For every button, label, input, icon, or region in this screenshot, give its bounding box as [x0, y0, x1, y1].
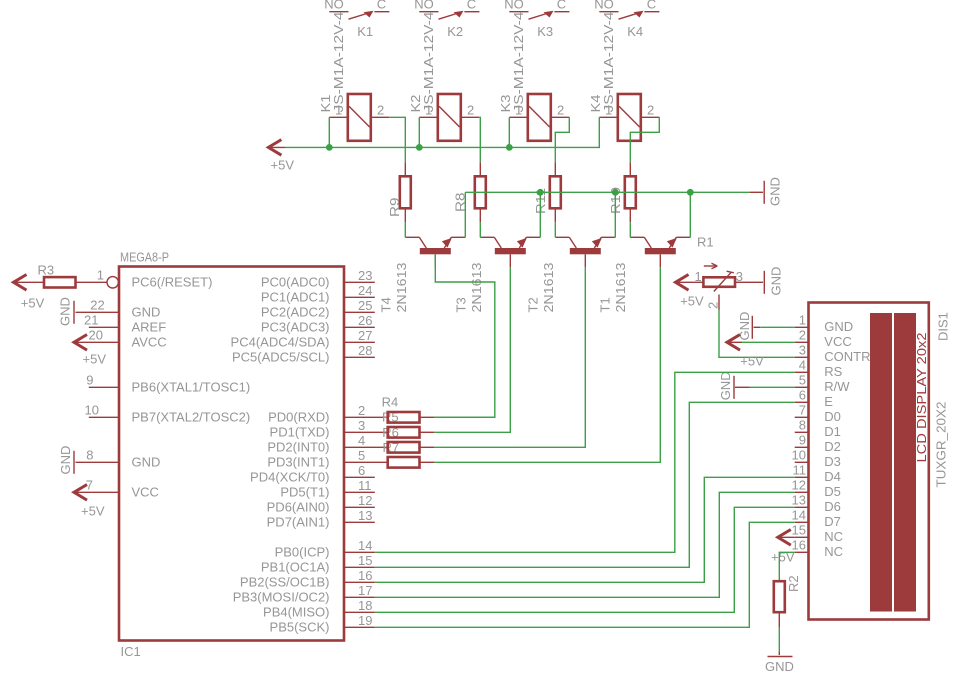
IC1 pin 1 (PC6(/RESET)) [97, 267, 213, 289]
svg-text:PD7(AIN1): PD7(AIN1) [267, 515, 330, 530]
svg-text:PC4(ADC4/SDA): PC4(ADC4/SDA) [231, 335, 330, 350]
ground symbol at LCD pin 5 [718, 371, 750, 400]
resistor R5 [388, 427, 435, 438]
LCD DIS1 pin 12 (D5) [792, 477, 841, 499]
ground symbol at trimmer R1 [750, 267, 784, 296]
svg-text:R4: R4 [382, 395, 399, 410]
svg-text:E: E [824, 394, 833, 409]
svg-text:R3: R3 [38, 262, 55, 277]
svg-text:R1: R1 [697, 235, 714, 250]
IC1 pin 3 (PD1(TXD)) [270, 418, 388, 440]
svg-text:PC2(ADC2): PC2(ADC2) [261, 305, 330, 320]
wire LCD pin2 to +5V [742, 341, 795, 343]
svg-text:GND: GND [132, 455, 161, 470]
svg-text:+5V: +5V [740, 353, 764, 368]
svg-text:2: 2 [647, 102, 654, 117]
svg-text:3: 3 [736, 269, 743, 284]
IC1 pin 19 (PB5(SCK)) [270, 613, 375, 635]
junction K1/+5V [326, 144, 333, 151]
svg-text:PD1(TXD): PD1(TXD) [270, 425, 330, 440]
svg-text:8: 8 [799, 417, 806, 432]
svg-text:6: 6 [358, 463, 365, 478]
wire T4 emitter to rail [464, 192, 466, 237]
svg-text:12: 12 [792, 477, 806, 492]
svg-text:GND: GND [132, 305, 161, 320]
wire R4 to T4 base [434, 416, 495, 418]
svg-text:PC0(ADC0): PC0(ADC0) [261, 275, 330, 290]
svg-text:D4: D4 [824, 469, 841, 484]
svg-text:PD4(XCK/T0): PD4(XCK/T0) [250, 470, 329, 485]
svg-text:PB0(ICP): PB0(ICP) [275, 545, 330, 560]
wire T3 emitter to rail [539, 192, 541, 237]
wire K2 pin1 drop [418, 117, 420, 147]
svg-text:PB1(OC1A): PB1(OC1A) [261, 560, 330, 575]
IC1 pin 9 (PB6(XTAL1/TOSC1)) [86, 372, 250, 394]
wire trimmer wiper to LCD CONTR [719, 310, 795, 357]
svg-text:GND: GND [765, 659, 794, 674]
svg-text:7: 7 [86, 477, 93, 492]
svg-text:AVCC: AVCC [132, 335, 167, 350]
svg-text:GND: GND [824, 319, 853, 334]
transistor T1 (2N1613 NPN) [630, 237, 690, 267]
resistor R3 [44, 277, 107, 287]
IC1 pin 8 (GND) [76, 447, 161, 469]
wire emitter rail to GND [465, 191, 750, 193]
IC1 pin 24 (PC1(ADC1)) [261, 283, 375, 305]
svg-text:GND: GND [718, 371, 733, 400]
wire T2 collector to resistor [554, 222, 556, 237]
svg-text:K4: K4 [627, 24, 643, 39]
IC1 pin 11 (PD5(T1)) [280, 478, 374, 500]
ground symbol at IC1 pin 8 [58, 446, 74, 475]
svg-text:JS-M1A-12V-4: JS-M1A-12V-4 [331, 12, 346, 113]
svg-text:PD2(INT0): PD2(INT0) [267, 440, 329, 455]
wire K1 pin2 to R9 [389, 117, 405, 162]
+5V power symbol (rail, left) [268, 140, 294, 173]
svg-text:26: 26 [358, 313, 372, 328]
wire LCD pin1 to GND [760, 326, 795, 328]
wire PB2 to LCD D4 [375, 477, 795, 582]
svg-text:JS-M1A-12V-4: JS-M1A-12V-4 [511, 12, 526, 113]
svg-text:PD3(INT1): PD3(INT1) [267, 455, 329, 470]
+5V power symbol at trimmer R1 [676, 275, 705, 309]
wire T3 collector to resistor [479, 222, 481, 237]
svg-text:15: 15 [358, 553, 372, 568]
relay K4 switch contacts (NO / C) [594, 0, 659, 39]
svg-text:LCD DISPLAY 20x2: LCD DISPLAY 20x2 [914, 333, 929, 463]
wire PB5 to LCD D7 [375, 522, 795, 627]
+5V power symbol at LCD pin 2 [727, 335, 764, 369]
svg-text:2N1613: 2N1613 [541, 263, 556, 313]
IC1 pin 25 (PC2(ADC2)) [261, 298, 375, 320]
svg-text:C: C [647, 0, 656, 12]
wire PB4 to LCD D6 [375, 507, 795, 612]
wire LCD pin16 to R2 [779, 552, 794, 581]
junction T1 emitter [687, 189, 694, 196]
svg-text:T4: T4 [378, 297, 393, 312]
svg-text:CONTR: CONTR [824, 349, 870, 364]
svg-text:12: 12 [358, 493, 372, 508]
IC1 pin 1 inversion circle [107, 277, 118, 288]
svg-text:TUXGR_20X2: TUXGR_20X2 [934, 402, 949, 488]
wire T1 collector to resistor [629, 222, 631, 237]
svg-text:T3: T3 [454, 297, 469, 312]
svg-text:D6: D6 [824, 499, 841, 514]
IC1 pin 6 (PD4(XCK/T0)) [250, 463, 375, 485]
svg-text:DIS1: DIS1 [936, 312, 951, 341]
svg-text:25: 25 [358, 298, 372, 313]
svg-text:2: 2 [358, 403, 365, 418]
junction K3/+5V [506, 144, 513, 151]
svg-text:R/W: R/W [824, 379, 850, 394]
svg-text:VCC: VCC [824, 334, 851, 349]
svg-text:PB2(SS/OC1B): PB2(SS/OC1B) [240, 575, 330, 590]
LCD DIS1 pin 13 (D6) [792, 492, 841, 514]
svg-text:3: 3 [799, 342, 806, 357]
resistor R6 [388, 442, 435, 453]
svg-text:9: 9 [799, 432, 806, 447]
IC1 pin 18 (PB4(MISO)) [263, 598, 375, 620]
LCD DIS1 pin 11 (D4) [793, 462, 841, 484]
svg-text:21: 21 [84, 312, 98, 327]
svg-text:13: 13 [358, 508, 372, 523]
LCD DIS1 pin 1 (GND) [795, 312, 853, 334]
svg-text:RS: RS [824, 364, 842, 379]
svg-text:T2: T2 [526, 297, 541, 312]
IC1 pin 5 (PD3(INT1)) [267, 448, 387, 470]
svg-text:+5V: +5V [81, 503, 105, 518]
relay K1 coil [329, 94, 389, 141]
relay K3 switch contacts (NO / C) [504, 0, 569, 39]
svg-text:2: 2 [799, 327, 806, 342]
junction K2/+5V [416, 144, 423, 151]
relay K4 coil [599, 94, 659, 141]
wire T2 emitter to rail [614, 192, 616, 237]
resistor R2 [774, 581, 785, 627]
svg-text:19: 19 [358, 613, 372, 628]
svg-text:1: 1 [97, 267, 104, 282]
wire T2 base to R6 [434, 267, 585, 447]
svg-text:4: 4 [358, 433, 365, 448]
svg-text:MEGA8-P: MEGA8-P [120, 250, 169, 265]
svg-text:2: 2 [467, 102, 474, 117]
ground symbol at IC1 pin 22 [58, 297, 75, 326]
svg-text:D5: D5 [824, 484, 841, 499]
svg-text:5: 5 [358, 448, 365, 463]
svg-text:R2: R2 [786, 575, 801, 592]
+5V power symbol at R3 [14, 275, 45, 311]
svg-text:13: 13 [792, 492, 806, 507]
LCD DIS1 pin 14 (D7) [792, 507, 841, 529]
svg-text:+5V: +5V [771, 549, 795, 564]
svg-text:2: 2 [557, 102, 564, 117]
IC1 pin 22 (GND) [76, 297, 161, 319]
svg-text:D0: D0 [824, 409, 841, 424]
LCD DIS1 pin 9 (D2) [795, 432, 841, 454]
wire K2 pin2 to R8 [479, 117, 480, 162]
resistor R10 [625, 162, 636, 222]
ground symbol at LCD pin 1 [737, 312, 760, 341]
relay K3 coil [509, 94, 569, 141]
ground symbol below R2 [765, 652, 794, 674]
LCD DIS1 pin 5 (R/W) [795, 372, 851, 394]
svg-text:JS-M1A-12V-4: JS-M1A-12V-4 [601, 12, 616, 113]
transistor T4 (2N1613 NPN) [405, 237, 465, 267]
relay K2 switch contacts (NO / C) [414, 0, 479, 39]
resistor R4 [388, 412, 435, 423]
junction T3 emitter [537, 189, 544, 196]
svg-text:14: 14 [792, 507, 806, 522]
resistor R8 [475, 162, 486, 222]
LCD DIS1 pin 6 (E) [795, 387, 834, 409]
svg-text:D1: D1 [824, 424, 841, 439]
svg-text:7: 7 [799, 402, 806, 417]
svg-text:VCC: VCC [132, 485, 159, 500]
wire LCD pin5 to GND [750, 386, 795, 388]
IC1 pin 16 (PB2(SS/OC1B)) [240, 568, 375, 590]
svg-text:PD0(RXD): PD0(RXD) [268, 410, 329, 425]
resistor R11 [550, 162, 561, 222]
svg-text:16: 16 [358, 568, 372, 583]
svg-text:24: 24 [358, 283, 372, 298]
svg-text:JS-M1A-12V-4: JS-M1A-12V-4 [421, 12, 436, 113]
svg-text:5: 5 [799, 372, 806, 387]
wire PB1 to LCD E [375, 402, 795, 567]
svg-text:28: 28 [358, 343, 372, 358]
svg-text:PD6(AIN0): PD6(AIN0) [267, 500, 330, 515]
LCD DIS1 pin 10 (D3) [792, 447, 841, 469]
wire T4 collector to resistor [404, 222, 406, 237]
svg-text:20: 20 [89, 327, 103, 342]
svg-text:15: 15 [792, 522, 806, 537]
svg-text:14: 14 [358, 538, 372, 553]
svg-text:PB6(XTAL1/TOSC1): PB6(XTAL1/TOSC1) [132, 380, 251, 395]
relay K2 coil [419, 94, 479, 141]
svg-text:2N1613: 2N1613 [469, 263, 484, 313]
svg-text:NC: NC [824, 529, 843, 544]
svg-text:11: 11 [358, 478, 372, 493]
wire PB3 to LCD D5 [375, 492, 795, 597]
svg-text:27: 27 [358, 328, 372, 343]
wire PB0 to LCD RS [375, 372, 795, 552]
svg-text:PC3(ADC3): PC3(ADC3) [261, 320, 330, 335]
trimmer potentiometer R1 [703, 263, 749, 310]
svg-text:GND: GND [768, 177, 783, 206]
svg-text:9: 9 [86, 372, 93, 387]
svg-text:GND: GND [58, 446, 73, 475]
svg-text:8: 8 [86, 447, 93, 462]
svg-text:2N1613: 2N1613 [394, 263, 409, 313]
IC1 pin 13 (PD7(AIN1)) [267, 508, 375, 530]
svg-text:6: 6 [799, 387, 806, 402]
svg-text:GND: GND [58, 297, 73, 326]
svg-text:+5V: +5V [83, 352, 107, 367]
LCD DIS1 pin 7 (D0) [795, 402, 841, 424]
svg-text:18: 18 [358, 598, 372, 613]
wire T4 base to R4 [434, 254, 495, 417]
transistor T3 (2N1613 NPN) [480, 237, 540, 267]
wire K3 pin2 to R11 [555, 117, 569, 162]
wire T1 emitter to rail [689, 192, 691, 237]
LCD DIS1 pin 8 (D1) [795, 417, 841, 439]
ground symbol (emitter rail) [750, 177, 783, 206]
svg-text:C: C [467, 0, 476, 12]
transistor T2 (2N1613 NPN) [555, 237, 615, 267]
svg-text:D7: D7 [824, 514, 841, 529]
LCD display DIS1 body (TUXGR_20X2) [809, 303, 929, 620]
IC1 pin 21 (AREF) [84, 312, 166, 334]
wire T1 base to R7 [434, 267, 660, 462]
svg-text:2N1613: 2N1613 [613, 263, 628, 313]
svg-text:K2: K2 [447, 24, 463, 39]
svg-text:17: 17 [358, 583, 372, 598]
svg-text:4: 4 [799, 357, 806, 372]
svg-text:NO: NO [594, 0, 614, 12]
svg-text:IC1: IC1 [121, 644, 141, 659]
svg-text:PC5(ADC5/SCL): PC5(ADC5/SCL) [232, 350, 330, 365]
wire +5V rail [285, 117, 599, 147]
svg-text:+5V: +5V [271, 157, 295, 172]
resistor R7 [388, 457, 435, 468]
svg-text:2: 2 [377, 102, 384, 117]
wire R2 to GND [778, 627, 780, 652]
IC1 pin 15 (PB1(OC1A)) [261, 553, 375, 575]
svg-text:10: 10 [85, 402, 99, 417]
svg-text:11: 11 [793, 462, 807, 477]
LCD DIS1 pin 3 (CONTR) [795, 342, 871, 364]
svg-text:D2: D2 [824, 439, 841, 454]
IC1 pin 12 (PD6(AIN0)) [267, 493, 375, 515]
IC1 pin 10 (PB7(XTAL2/TOSC2)) [85, 402, 251, 424]
svg-text:D3: D3 [824, 454, 841, 469]
IC1 pin 20 (AVCC) [74, 327, 167, 350]
IC1 pin 27 (PC4(ADC4/SDA)) [231, 328, 375, 350]
IC1 pin 4 (PD2(INT0)) [267, 433, 387, 455]
junction T2 emitter [612, 189, 619, 196]
svg-text:C: C [557, 0, 566, 12]
svg-text:R9: R9 [387, 198, 402, 218]
svg-text:K1: K1 [357, 24, 373, 39]
wire K1 pin1 drop [328, 117, 330, 147]
svg-text:C: C [377, 0, 386, 12]
IC1 pin 14 (PB0(ICP)) [275, 538, 375, 560]
svg-text:PC1(ADC1): PC1(ADC1) [261, 290, 330, 305]
svg-text:PB7(XTAL2/TOSC2): PB7(XTAL2/TOSC2) [132, 410, 251, 425]
svg-text:PB4(MISO): PB4(MISO) [263, 605, 329, 620]
svg-text:+5V: +5V [21, 296, 45, 311]
relay K1 switch contacts (NO / C) [324, 0, 389, 39]
svg-text:1: 1 [695, 269, 702, 284]
wire T3 base to R5 [434, 267, 510, 432]
svg-text:GND: GND [769, 267, 784, 296]
IC1 pin 7 (VCC) [74, 477, 159, 500]
svg-text:PB5(SCK): PB5(SCK) [270, 620, 330, 635]
svg-text:AREF: AREF [132, 320, 167, 335]
svg-text:NO: NO [414, 0, 434, 12]
svg-text:10: 10 [792, 447, 806, 462]
op IC1 MEGA8-P microcontroller body [119, 267, 344, 641]
resistor R9 [400, 162, 411, 222]
IC1 pin 23 (PC0(ADC0)) [261, 268, 375, 290]
svg-text:T1: T1 [598, 297, 613, 312]
svg-text:K3: K3 [537, 24, 553, 39]
IC1 pin 28 (PC5(ADC5/SCL)) [232, 343, 375, 365]
wire K4 pin2 to R10 [630, 117, 659, 162]
svg-text:+5V: +5V [680, 293, 704, 308]
wire K3 pin1 drop [508, 117, 510, 147]
svg-text:PC6(/RESET): PC6(/RESET) [132, 275, 213, 290]
IC1 pin 26 (PC3(ADC3)) [261, 313, 375, 335]
svg-text:22: 22 [90, 297, 104, 312]
svg-text:NO: NO [324, 0, 344, 12]
svg-text:23: 23 [358, 268, 372, 283]
LCD DIS1 pin 15 (NC) [792, 522, 844, 544]
IC1 pin 2 (PD0(RXD)) [268, 403, 388, 425]
svg-text:2: 2 [705, 302, 720, 309]
LCD DIS1 pin 4 (RS) [795, 357, 843, 379]
svg-text:1: 1 [799, 312, 806, 327]
svg-text:PD5(T1): PD5(T1) [280, 485, 329, 500]
+5V power symbol at LCD pin 15 [771, 530, 795, 565]
LCD DIS1 pin 2 (VCC) [795, 327, 852, 349]
svg-text:NO: NO [504, 0, 524, 12]
LCD DIS1 pin 16 (NC) [792, 537, 844, 559]
svg-text:3: 3 [358, 418, 365, 433]
svg-text:PB3(MOSI/OC2): PB3(MOSI/OC2) [233, 590, 330, 605]
svg-text:NC: NC [824, 544, 843, 559]
IC1 pin 17 (PB3(MOSI/OC2)) [233, 583, 375, 605]
